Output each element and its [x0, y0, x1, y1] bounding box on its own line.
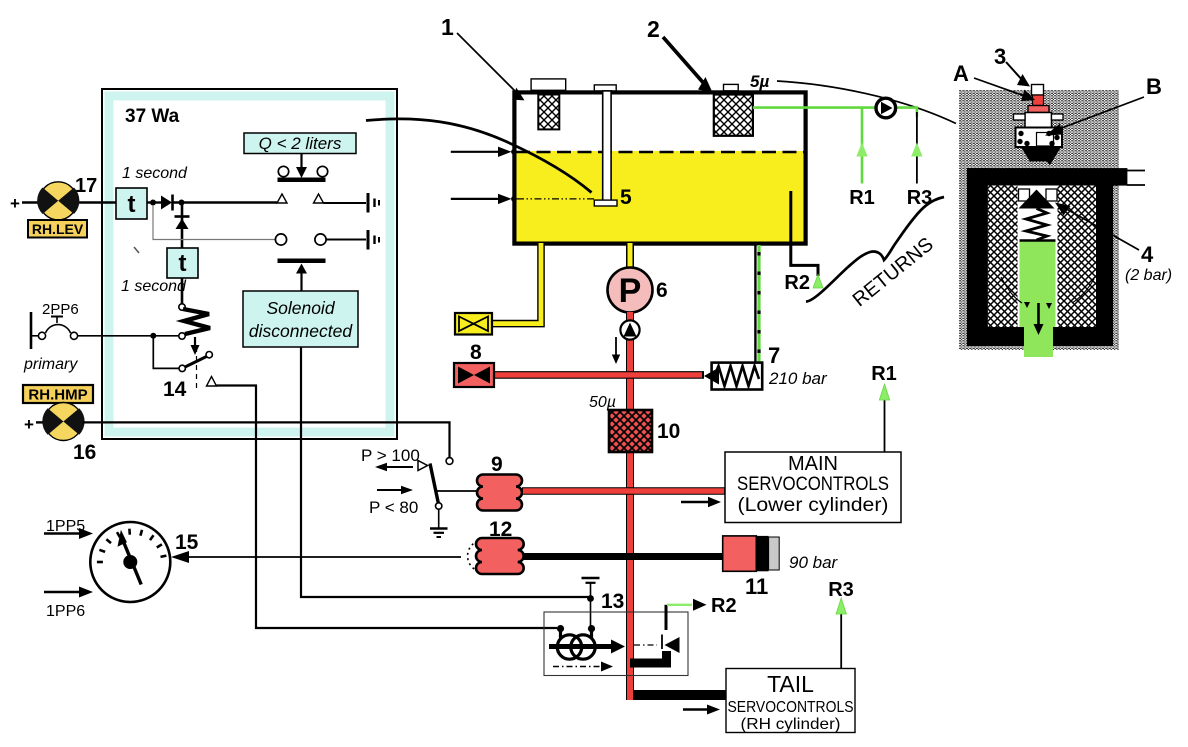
svg-text:1 second: 1 second: [121, 278, 187, 295]
piston packing right: [1058, 186, 1097, 328]
ball cage B: [1016, 128, 1063, 148]
top plate bar: [967, 168, 1128, 186]
svg-text:1: 1: [441, 14, 454, 40]
curve from 37Wa to tube 5: [366, 119, 592, 193]
gauge sensing wire: [188, 556, 461, 558]
wire vertical to t2: [181, 203, 184, 249]
level gauge tube 5: [594, 85, 617, 206]
poppet triangle 4: [1019, 190, 1055, 209]
cylinder bottom: [967, 327, 1113, 346]
svg-text:R3: R3: [907, 187, 933, 209]
svg-text:7: 7: [768, 343, 780, 368]
wire t2 to resistor: [181, 278, 184, 304]
timer relay t (upper): [116, 188, 147, 219]
gauge 15: [90, 522, 170, 602]
wire down to switch: [153, 336, 179, 369]
side tab right: [1052, 114, 1064, 120]
red line over tail pipe: [627, 690, 633, 700]
wire: [173, 201, 277, 203]
piston packing left: [988, 186, 1018, 328]
svg-text:R3: R3: [828, 579, 854, 601]
actuator bar upper: [278, 178, 326, 183]
fluid level dashed line: [516, 151, 804, 154]
arrow 4: [1055, 203, 1139, 251]
svg-text:90 bar: 90 bar: [789, 553, 839, 572]
fluid tail: [1024, 327, 1053, 357]
funnel seat: [1021, 147, 1061, 167]
TAIL servocontrols box: [726, 669, 855, 734]
svg-text:TAIL: TAIL: [767, 671, 814, 697]
actuation arrow down: [191, 337, 200, 355]
svg-text:13: 13: [601, 590, 624, 613]
svg-text:+: +: [10, 194, 20, 213]
svg-text:RH.HMP: RH.HMP: [28, 387, 87, 404]
arrow 1PP6: [44, 587, 93, 598]
filter 10: [609, 410, 652, 452]
indicator light 16: [42, 403, 84, 441]
label RH.LEV: [28, 220, 87, 238]
reservoir body: [514, 92, 805, 243]
arrow left: [375, 463, 413, 471]
fluid top line: [1020, 239, 1056, 241]
node junction: [150, 333, 156, 339]
cylinder left wall: [967, 168, 988, 346]
R1 return drop: [856, 108, 867, 184]
return pump symbol: [876, 98, 896, 118]
svg-text:P < 80: P < 80: [369, 498, 418, 517]
svg-text:t: t: [179, 250, 187, 277]
label box Q < 2 liters: [244, 133, 356, 154]
arrow A: [974, 78, 1035, 101]
svg-text:8: 8: [470, 341, 482, 364]
label RH.HMP: [23, 385, 93, 404]
breaker 2PP6: [31, 301, 79, 349]
filter 2 (5 micron): [714, 95, 753, 136]
svg-text:t: t: [128, 191, 136, 218]
label box Solenoid disconnected: [243, 291, 358, 347]
tick mark: [134, 247, 139, 253]
cap 2: [724, 84, 739, 90]
ports right: [1127, 170, 1145, 172]
switch 14 blade: [179, 352, 212, 372]
diode D2: [175, 217, 190, 230]
svg-text:5: 5: [620, 186, 632, 209]
wire from 14 contact to lower-left bus: [217, 386, 558, 629]
svg-text:Solenoid: Solenoid: [266, 298, 335, 318]
node 13 junction: [587, 595, 594, 602]
svg-text:(RH cylinder): (RH cylinder): [741, 716, 841, 733]
flow arrow down: [1034, 303, 1044, 335]
drain line to relief valve (solid+green dashed): [755, 245, 759, 362]
svg-text:9: 9: [491, 453, 503, 476]
accumulator 12: [476, 538, 524, 574]
arrow 3: [1006, 62, 1030, 87]
contact circle lower: [436, 503, 442, 509]
flow arrow down: [612, 337, 620, 364]
svg-text:R1: R1: [849, 187, 875, 209]
solenoid valve 13 box: [544, 612, 688, 676]
return manifold green line: [753, 106, 917, 109]
node junction: [179, 200, 185, 206]
svg-text:disconnected: disconnected: [249, 321, 353, 341]
coil: [557, 629, 595, 660]
indicator light 17: [37, 182, 79, 220]
wire solenoid-disconnected to valve 13: [301, 347, 588, 597]
check valve: [620, 320, 639, 339]
arrow 2: [663, 37, 713, 93]
ground: [430, 509, 448, 537]
node junction: [150, 200, 156, 206]
suction line yellow: [626, 243, 634, 268]
contact row A triangles: [277, 194, 287, 203]
mechanical link dashed: [196, 347, 198, 390]
svg-text:50µ: 50µ: [589, 394, 616, 411]
red collar: [1028, 106, 1049, 113]
wire node to coil: [590, 599, 592, 627]
svg-text:4: 4: [1141, 242, 1154, 267]
blowup housing stipple: [959, 90, 1119, 350]
arrowhead into gauge: [171, 551, 189, 563]
R2 arrowhead: [813, 275, 823, 289]
filter 1 (strainer): [538, 95, 559, 130]
poppet cap 3: [1032, 85, 1044, 96]
arrow right: [377, 486, 413, 494]
yellow pipe valve8a to reservoir: [492, 243, 541, 324]
pilot line to R2: [665, 605, 668, 630]
svg-text:primary: primary: [23, 356, 78, 373]
ground above 13: [582, 578, 600, 597]
actuator bar lower: [278, 259, 326, 264]
svg-text:A: A: [953, 61, 969, 86]
curl arrowhead right: [1046, 303, 1052, 309]
black pipe 12 to 11: [524, 553, 723, 560]
svg-text:B: B: [1146, 74, 1162, 99]
svg-text:37 Wa: 37 Wa: [125, 106, 180, 127]
inlet arrow lower: [451, 194, 517, 204]
tail feed pipe: [627, 690, 728, 700]
svg-text:+: +: [24, 415, 34, 434]
arrow 1: [457, 33, 525, 100]
valve 8a (yellow): [455, 313, 492, 335]
R1 feed line: [879, 384, 889, 452]
cylinder right wall: [1096, 186, 1113, 347]
R2 arrowhead: [693, 599, 707, 611]
svg-text:1 second: 1 second: [122, 165, 188, 182]
coil terminals: [557, 625, 564, 632]
svg-text:MAIN: MAIN: [788, 453, 838, 475]
svg-text:210 bar: 210 bar: [768, 369, 828, 388]
arrow 1PP5: [44, 528, 93, 539]
dotted sensing arc: [468, 541, 478, 571]
R2 drain dip tube: [791, 191, 818, 276]
svg-text:3: 3: [994, 44, 1006, 69]
curve 5u to blowup component: [777, 81, 956, 124]
svg-text:5µ: 5µ: [750, 72, 769, 91]
pressure main red vertical: [626, 312, 634, 700]
arrow into TAIL: [683, 705, 720, 715]
svg-text:R1: R1: [871, 363, 897, 385]
filler cap 1: [531, 79, 566, 90]
coil thick arrow: [549, 640, 625, 654]
wire: [147, 201, 161, 203]
seat square right: [1046, 189, 1057, 201]
svg-text:(2 bar): (2 bar): [1125, 267, 1172, 284]
brace RETURNS: [806, 197, 944, 302]
curl arrowhead left: [1024, 302, 1030, 308]
svg-text:SERVOCONTROLS: SERVOCONTROLS: [728, 699, 854, 716]
svg-text:2: 2: [647, 16, 660, 42]
switch blade: [430, 464, 439, 505]
fluid column green: [1020, 242, 1056, 328]
resistor / thermal element: [179, 304, 210, 339]
R2 tap green: [667, 604, 692, 606]
piston bore white: [1018, 186, 1058, 328]
red pipe 9 to MAIN: [522, 487, 725, 495]
contact triangle of 14: [207, 377, 217, 387]
wire: [22, 201, 45, 203]
svg-text:R2: R2: [711, 595, 737, 617]
contact circle upper: [446, 458, 453, 465]
svg-text:2PP6: 2PP6: [42, 301, 79, 318]
inlet arrow upper: [451, 147, 517, 157]
R3 return drop: [911, 106, 922, 183]
svg-text:11: 11: [745, 574, 768, 599]
svg-text:P > 100: P > 100: [361, 446, 420, 465]
contact triangle: [418, 461, 428, 471]
dash-dot level link: [517, 198, 594, 200]
wire to accumulator 9: [436, 490, 477, 492]
sense wire (gray): [153, 205, 276, 240]
svg-text:6: 6: [656, 279, 668, 302]
arrow into MAIN: [681, 497, 721, 507]
wire: [36, 421, 47, 423]
svg-text:(Lower cylinder): (Lower cylinder): [738, 495, 889, 516]
svg-text:Q < 2 liters: Q < 2 liters: [259, 134, 342, 153]
relief valve 7: [704, 363, 762, 390]
flow curl right: [1072, 279, 1094, 303]
flow curl left: [1001, 277, 1022, 303]
dash-dot arrow: [553, 662, 613, 672]
pump P 6: [608, 268, 653, 313]
valve 8b (red bleed): [454, 363, 494, 387]
funnel seat wedge: [1027, 162, 1053, 169]
wire: [74, 201, 116, 203]
terminal B: [368, 230, 379, 250]
svg-text:1PP6: 1PP6: [46, 603, 85, 620]
actuator arrow down: [296, 154, 307, 179]
svg-text:SERVOCONTROLS: SERVOCONTROLS: [737, 474, 889, 495]
side tab left: [1014, 114, 1026, 120]
seat square left: [1019, 189, 1030, 201]
svg-text:17: 17: [75, 175, 97, 197]
timer relay t (lower): [167, 248, 198, 278]
detection box 37Wa outer frame: [102, 89, 397, 439]
pressure switch 11: [723, 536, 779, 571]
valve body white: [1025, 113, 1052, 128]
contact row B circles: [275, 234, 286, 245]
MAIN servocontrols box: [725, 452, 901, 523]
svg-text:R2: R2: [784, 272, 810, 294]
valve spool pipe: [630, 635, 680, 664]
svg-text:RH.LEV: RH.LEV: [32, 221, 84, 237]
wire 2PP6 to resistor bottom: [74, 335, 179, 337]
red pin: [1033, 95, 1044, 106]
contact carrier circles: [278, 166, 288, 176]
terminal A: [368, 193, 379, 213]
wire: [324, 202, 367, 204]
accumulator 9: [477, 475, 522, 511]
svg-text:14: 14: [163, 378, 187, 401]
svg-text:10: 10: [657, 420, 680, 443]
diode D1: [161, 195, 173, 211]
spring 4: [1026, 209, 1047, 241]
red pipe valve8b to relief: [494, 371, 704, 379]
svg-text:P: P: [619, 272, 642, 310]
R3 feed line: [836, 598, 846, 669]
svg-text:16: 16: [73, 441, 96, 464]
wire light16 to pressure switch: [83, 422, 450, 457]
wire: [327, 239, 367, 241]
actuator arrow up: [296, 264, 307, 292]
arrow B: [1045, 97, 1144, 136]
svg-text:15: 15: [175, 531, 199, 554]
